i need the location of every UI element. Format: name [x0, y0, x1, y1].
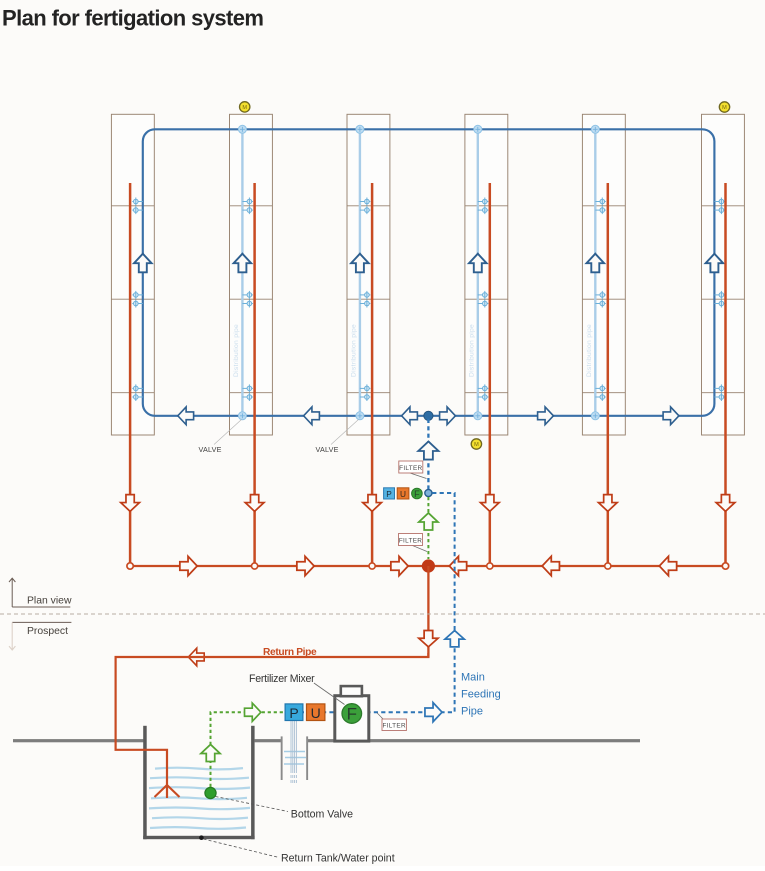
main irrigation loop pipe [143, 129, 715, 416]
distribution pipe column 3 [351, 129, 360, 416]
flow arrow up column 5 [587, 254, 605, 273]
bed column 1 outline [111, 114, 154, 435]
well water [284, 752, 306, 765]
green arrow up (prospect) [201, 744, 220, 761]
Return Tank label [204, 839, 395, 865]
svg-text:FILTER: FILTER [383, 723, 406, 730]
filter label 1 [399, 461, 427, 479]
bed column 5 outline [582, 114, 625, 435]
suction pipes to well [291, 720, 296, 784]
svg-text:M: M [242, 105, 247, 111]
feeding arrow up (prospect) [445, 631, 464, 647]
collector junction rings [252, 563, 258, 569]
svg-text:Bottom Valve: Bottom Valve [291, 809, 353, 821]
svg-text:Plan view: Plan view [27, 596, 72, 607]
filter label 2 [399, 534, 428, 552]
feeding arrow right (prospect) [425, 703, 442, 722]
svg-text:VALVE: VALVE [199, 445, 222, 454]
return flow arrow left [188, 648, 204, 666]
svg-text:Main: Main [461, 672, 485, 684]
svg-text:U: U [311, 705, 321, 721]
return pipe (prospect) [116, 653, 429, 798]
unit U (prospect) [307, 704, 325, 721]
feeding arrow up [418, 441, 438, 459]
bed column 3 outline [347, 114, 390, 435]
central loop node [424, 411, 433, 420]
green suction dashed (plan) [427, 497, 429, 559]
pipe junction nodes [238, 125, 599, 420]
svg-text:Distribution pipe: Distribution pipe [351, 324, 358, 377]
return riser column 5 [607, 183, 610, 566]
return flow arrow down [419, 631, 438, 647]
bed column 2 outline [230, 114, 273, 435]
fertilizer mixer box [335, 696, 369, 741]
distribution pipe column 4 [469, 129, 478, 416]
flow arrow up column 1 [134, 254, 152, 273]
svg-text:F: F [414, 489, 420, 499]
svg-text:Pipe: Pipe [461, 706, 483, 718]
svg-text:Feeding: Feeding [461, 689, 501, 701]
return pipe outlet fork [155, 785, 180, 797]
svg-text:VALVE: VALVE [316, 445, 339, 454]
svg-text:F: F [347, 705, 357, 724]
tank water [149, 768, 250, 829]
return riser column 6 [724, 183, 727, 566]
return riser column 3 [371, 183, 374, 566]
valve label [316, 420, 359, 454]
green arrow up (plan) [419, 513, 438, 530]
mixer F circle [342, 704, 362, 724]
return riser column 2 [253, 183, 256, 566]
svg-text:P: P [386, 489, 392, 499]
svg-text:Distribution pipe: Distribution pipe [586, 324, 593, 377]
Fertilizer Mixer label [249, 673, 345, 705]
svg-text:Distribution pipe: Distribution pipe [233, 324, 240, 377]
distribution pipe column 2 [233, 129, 242, 416]
svg-text:P: P [289, 705, 298, 721]
bed column 4 outline [465, 114, 508, 435]
flow arrow up column 3 [351, 254, 369, 273]
valve label [199, 420, 242, 454]
svg-text:Fertilizer Mixer: Fertilizer Mixer [249, 673, 315, 685]
svg-text:U: U [400, 489, 406, 499]
meter M [240, 102, 250, 112]
return pipe to prospect [427, 566, 429, 657]
green arrow right (prospect) [245, 703, 261, 721]
filter label 3 [377, 713, 406, 731]
svg-text:M: M [722, 105, 727, 111]
svg-text:FILTER: FILTER [399, 537, 422, 544]
return riser column 1 [129, 183, 132, 566]
feeding pipe dashed (plan vertical) [427, 419, 429, 490]
prospect label [12, 621, 71, 623]
svg-text:Plan for fertigation system: Plan for fertigation system [2, 6, 263, 31]
svg-text:Prospect: Prospect [27, 626, 68, 637]
central collector node (red) [422, 559, 435, 572]
pump unit P (plan) [384, 488, 395, 499]
Main Feeding Pipe label [461, 672, 501, 718]
collector flow arrows [180, 556, 197, 575]
plan view label [9, 578, 70, 607]
bed column 6 outline [702, 114, 745, 435]
Bottom Valve label [216, 797, 354, 821]
meter M [719, 102, 729, 112]
return collector pipe [130, 565, 725, 567]
collector end rings [127, 563, 133, 569]
distribution pipe column 5 [586, 129, 595, 416]
ground line [13, 739, 640, 742]
feed node [425, 489, 432, 496]
well shaft walls [281, 736, 283, 780]
plan/prospect divider [0, 613, 765, 615]
mixer lid [341, 686, 362, 696]
flow arrow up column 2 [234, 254, 252, 273]
svg-text:Return Tank/Water point: Return Tank/Water point [281, 853, 395, 865]
return riser column 4 [489, 183, 492, 566]
meter M [471, 439, 481, 449]
fertilizer mixer F (plan) [412, 488, 423, 499]
pump P (prospect) [285, 704, 303, 721]
bottom valve [205, 787, 216, 798]
main feeding pipe dashed (to prospect) [304, 493, 455, 712]
unit U (plan) [397, 488, 409, 499]
bottom loop flow arrows [178, 407, 194, 425]
sprinkler markers [132, 198, 725, 402]
return tank walls [143, 726, 254, 839]
svg-text:Distribution pipe: Distribution pipe [469, 324, 476, 377]
svg-text:FILTER: FILTER [399, 465, 422, 472]
flow arrow up column 6 [706, 254, 724, 273]
tank bottom node [199, 835, 204, 840]
green suction dashed (prospect) [211, 712, 285, 787]
flow arrow up column 4 [469, 254, 487, 273]
svg-text:M: M [474, 442, 479, 448]
